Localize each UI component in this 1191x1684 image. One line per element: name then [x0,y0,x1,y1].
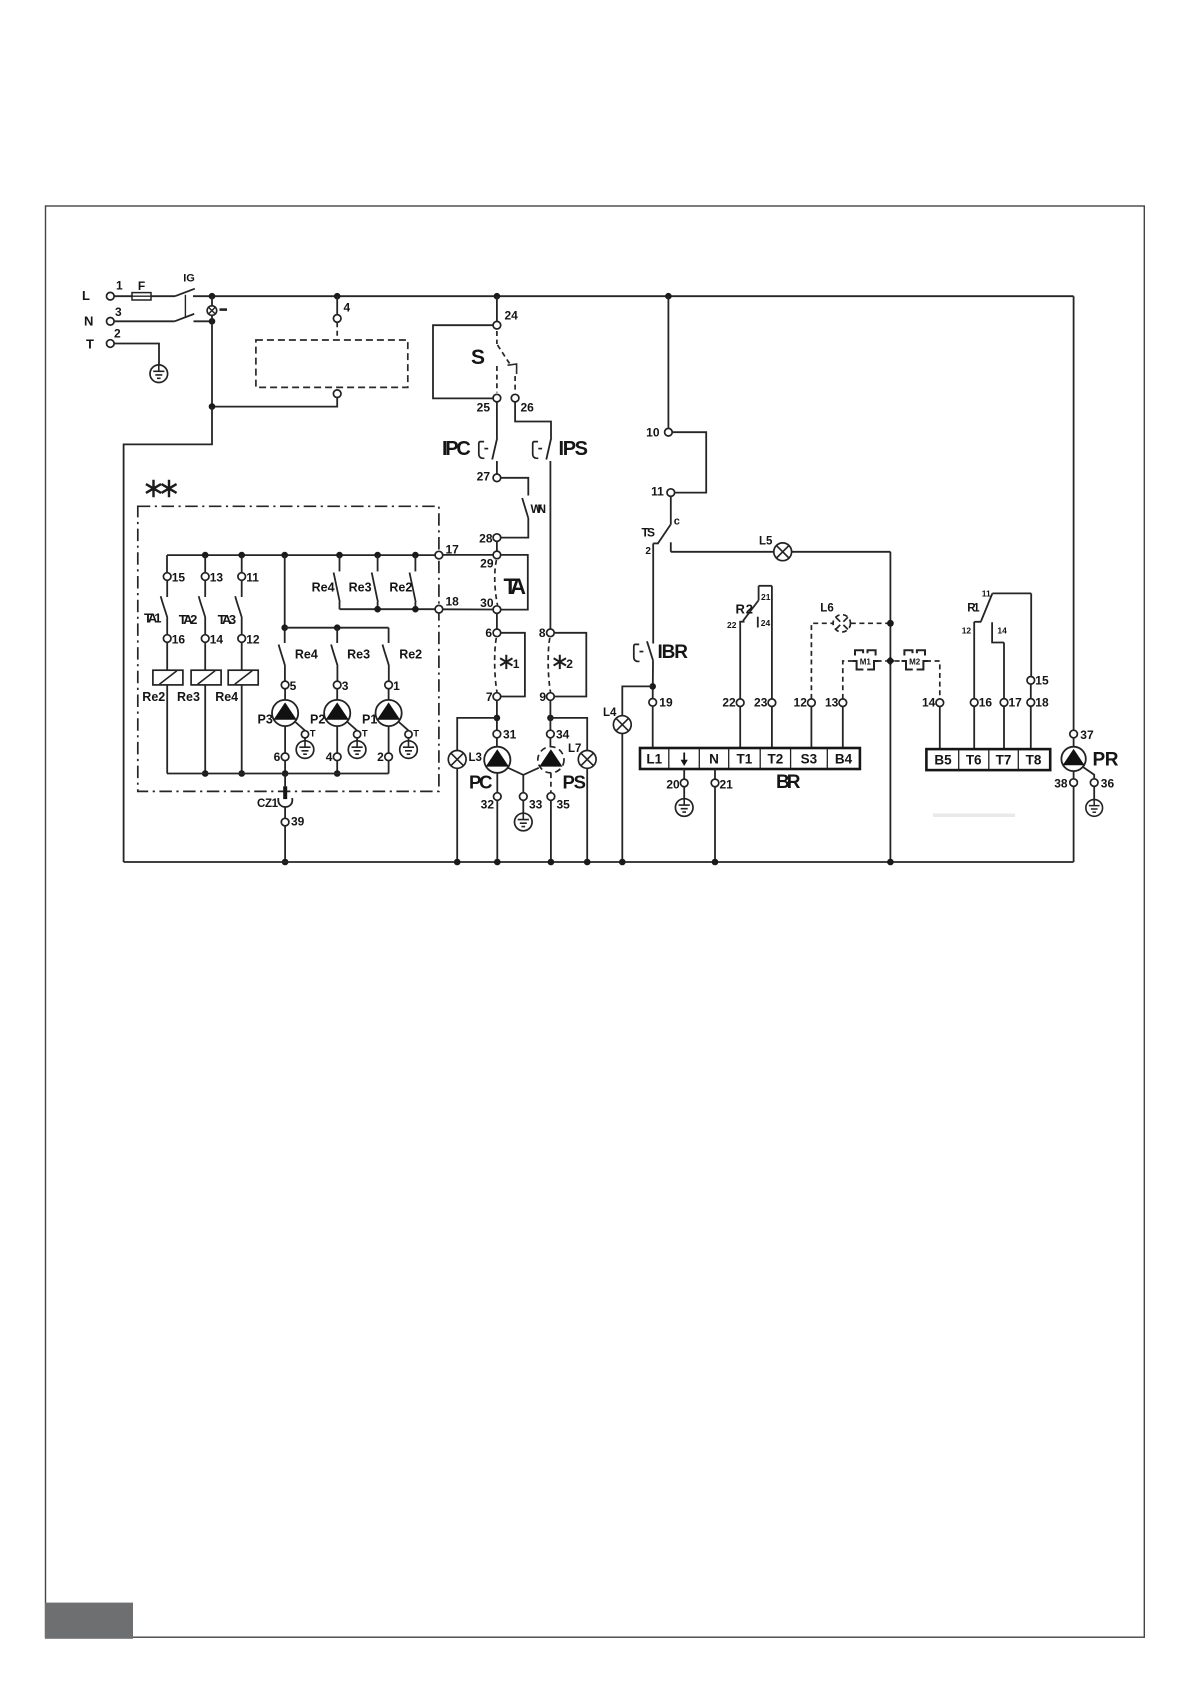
wire pumps header [285,627,389,629]
junction main left drop [209,403,216,410]
svg-text:Re4: Re4 [312,581,335,595]
svg-text:4: 4 [326,750,333,764]
switch TA1 [161,580,168,634]
svg-text:Re4: Re4 [295,648,318,662]
dashed option box [256,340,408,387]
svg-text:P3: P3 [258,712,273,726]
svg-text:14: 14 [922,696,936,710]
relay contact R2 [739,586,772,628]
svg-text:6: 6 [274,750,281,764]
wire 13 to B4 [842,707,844,749]
svg-text:2: 2 [645,546,651,557]
svg-text:L4: L4 [603,707,617,719]
terminal L [107,292,115,300]
junction pumps header left [281,624,288,631]
terminal 13 [201,573,209,581]
wire 16 to coil Re2 [166,642,168,670]
wire WN to 28 [501,518,528,538]
upper contact Re3 [372,555,378,609]
svg-text:TA3: TA3 [218,612,237,627]
wire 18 to T8 [1030,706,1032,749]
terminal 3 [333,681,341,689]
wire CZ1 to 39 [284,807,286,818]
svg-text:38: 38 [1054,776,1068,790]
terminal 16 [163,635,171,643]
terminal 16 right [970,699,978,707]
junction PS top [547,715,554,722]
dashed wire M2 to 14 [926,661,940,699]
svg-text:1: 1 [393,679,400,693]
svg-text:WN: WN [531,502,547,516]
wire 32 to bus [496,800,498,862]
svg-text:3: 3 [342,679,349,693]
thermostat TA box [501,555,528,610]
contact Re4 of P3 [279,645,286,667]
terminal 15 right [1027,677,1035,685]
wire IBR to 19 [652,660,654,698]
svg-text:9: 9 [539,690,546,704]
terminal 31 [493,730,501,738]
wire 6 to inner bus [284,761,286,774]
terminal 10 [665,428,673,436]
junction L6 drop [887,620,894,627]
wire bus to 10 [667,296,669,428]
relay coil M2 [902,650,928,669]
wire PC PS to 33 [508,768,539,793]
svg-text:TA: TA [504,574,527,599]
wire L3 to bus [456,769,458,863]
wire R2 to 23 [771,586,773,699]
terminal T of P2 [354,731,361,738]
junction inner bus Re3 [202,770,209,777]
pump PS dashed [538,747,564,773]
svg-text:12: 12 [794,696,808,710]
svg-text:1: 1 [513,657,520,671]
heater 1 dashed blade [495,638,497,692]
wire 4 to inner bus [336,761,338,774]
junction bus TA3 [238,552,245,559]
heater 1 star symbol [500,655,512,669]
wire P1 to T terminal [398,722,408,731]
junction bus at TS branch [665,293,672,300]
svg-text:Re3: Re3 [349,581,372,595]
lamp L6 dashed [833,615,850,632]
wire 30 to 6 [496,613,498,629]
svg-text:L6: L6 [820,603,833,615]
wire bus 17 to 29 [443,554,493,556]
junction N corner [209,318,216,325]
svg-text:F: F [138,279,145,293]
svg-text:24: 24 [505,309,519,323]
svg-text:14: 14 [210,633,224,647]
connector CZ1 [278,786,292,807]
wire P2 feeder [336,628,338,643]
dashed wire 13 to M1 [843,661,852,699]
relay contact R1 [974,593,1031,642]
terminal 11 right [667,489,675,497]
svg-text:15: 15 [1035,673,1049,687]
wire R1 14 to 17 [1003,643,1005,699]
terminal 26 [511,394,519,402]
wire P3 to T terminal [295,722,305,731]
junction bus L7 [584,859,591,866]
wire branch TA1 upper [166,555,168,573]
svg-text:T2: T2 [768,752,784,767]
junction bus CZ1 [282,859,289,866]
terminal 34 [547,730,555,738]
wire branch TA3 upper [241,555,243,573]
heater 2 dashed blade [548,638,550,692]
svg-text:P2: P2 [310,712,325,726]
terminal 27 [493,474,501,482]
gray footer block [45,1603,133,1639]
svg-text:TA1: TA1 [144,611,162,626]
wire T to earth [114,344,159,366]
svg-text:2: 2 [566,657,573,671]
junction PC top [494,715,501,722]
wire 9 to 34 [549,700,551,730]
svg-text:Re2: Re2 [389,581,412,595]
terminal 2 lower [385,753,393,761]
wire contact to 3 [336,666,338,681]
terminal 11 [238,573,246,581]
BR cell earth arrow [681,753,688,767]
wire T to earth P2 [356,738,358,741]
svg-text:13: 13 [825,696,839,710]
wire 27 to WN [501,478,529,496]
svg-text:16: 16 [979,696,993,710]
terminal T [107,340,115,348]
svg-text:IPC: IPC [442,438,471,460]
terminal 4 [333,315,341,323]
svg-text:TS: TS [642,526,656,540]
svg-text:17: 17 [446,543,460,557]
wire coil Re3 to inner bus [204,685,206,774]
svg-text:25: 25 [477,401,491,415]
wire PC to 32 [496,773,498,793]
terminal 24 [493,321,501,329]
svg-text:R1: R1 [967,603,980,615]
wire P1 to 2 [388,726,390,753]
switch IPS blade [546,438,551,460]
wire L5 return drop [889,552,891,862]
terminal 33 [520,793,528,801]
terminal 17 right [1000,699,1008,707]
upper contact Re4 [334,555,340,609]
dashed wire PS to 35 [550,773,552,793]
wire bus 18 to 30 [443,608,493,610]
wire 38 to bus [1073,786,1075,862]
junction bus at 4 branch [334,293,341,300]
junction rail Re2 [412,606,419,613]
svg-text:T7: T7 [996,753,1012,768]
svg-text:S: S [471,346,485,369]
wire 35 to bus [550,800,552,862]
wire bus to terminal 4 [336,296,338,314]
svg-text:Re4: Re4 [215,690,238,704]
wire 22 to T1 [739,707,741,749]
wire P3 to 6 [284,726,286,753]
svg-text:N: N [709,752,719,767]
junction bus L3 [454,859,461,866]
wire 21 to bus [714,787,716,862]
svg-text:37: 37 [1080,728,1094,742]
wire 17 to T7 [1003,706,1005,749]
dashed wire 12 to L6 [811,623,832,699]
wire 28 to 29 [496,541,498,551]
svg-text:23: 23 [754,696,768,710]
wire 14 to B5 [939,707,941,750]
pump PR [1061,747,1085,771]
svg-text:7: 7 [486,690,493,704]
svg-text:20: 20 [666,778,680,792]
junction bus at lamp branch [209,293,216,300]
junction bus L4 [619,859,626,866]
svg-text:34: 34 [556,728,570,742]
svg-text:PR: PR [1093,750,1119,771]
IBR actuator symbol [634,644,644,661]
wire P1 feeder [388,628,390,643]
svg-text:PS: PS [563,772,587,793]
svg-text:B4: B4 [835,752,853,767]
svg-text:CZ1: CZ1 [257,798,279,810]
wire 39 to bus [284,826,286,862]
svg-text:T: T [86,337,94,352]
wire 2 to inner bus [388,761,390,774]
svg-text:IG: IG [183,273,195,285]
wire contact to 5 [284,666,286,681]
svg-text:5: 5 [290,679,297,693]
svg-text:12: 12 [246,633,260,647]
IPS actuator symbol [533,442,542,459]
wire contacts lower rail [340,608,436,610]
svg-text:N: N [84,314,93,329]
earth of P1 [400,741,418,759]
TA dashed blade [495,560,498,605]
relay coil Re2 [153,670,183,685]
svg-text:T: T [310,729,316,740]
faint scan mark [933,814,1015,818]
svg-text:12: 12 [962,626,972,636]
wire BR earth cell to 20 [683,769,685,779]
terminal strip BR [640,748,860,769]
svg-text:30: 30 [480,596,494,610]
wire 15 to 18 [1030,684,1032,699]
terminal 12 right [808,699,816,707]
wire 31 to PC [496,738,498,747]
terminal 14 right [936,699,944,707]
svg-text:22: 22 [727,620,737,630]
svg-text:8: 8 [539,626,546,640]
svg-text:Re3: Re3 [177,690,200,704]
wire 12 to S3 [810,707,812,749]
junction inner bus P2 [334,770,341,777]
wire 26 to IPS [515,402,551,438]
wire main bottom bus [124,861,1074,863]
svg-text:T1: T1 [737,752,753,767]
svg-text:28: 28 [479,532,493,546]
terminal T of P3 [301,731,308,738]
thermostat TS changeover [653,496,671,551]
contact Re3 of P2 [331,645,338,667]
earth of PR [1086,800,1103,817]
wire coil Re2 to inner bus [166,685,168,774]
switch TA2 [199,580,206,634]
earth of pumps PC PS [515,813,533,831]
terminal 23 [768,699,776,707]
wire junction to L3 [457,718,497,750]
wire L7 to bus [586,769,588,863]
svg-text:39: 39 [291,815,305,829]
wire contact to 1 [388,666,390,681]
lamp L3 [448,751,466,769]
terminal strip right [926,749,1050,770]
terminal T of P1 [405,731,412,738]
relay coil M1 [852,650,878,669]
svg-text:24: 24 [761,618,771,628]
junction rail Re3 [374,606,381,613]
switch TA3 [235,580,242,634]
svg-text:Re2: Re2 [142,690,165,704]
svg-text:B5: B5 [934,753,952,768]
dashed lead 4 to option box [336,322,338,339]
wire R2 to 22 [739,622,741,699]
svg-text:Re3: Re3 [347,648,370,662]
wire P2 to T terminal [347,722,357,731]
junction L4 tap [649,683,656,690]
wire N contact to corner [194,320,213,322]
wire to lamp L4 [622,686,652,715]
terminal 14 [201,635,209,643]
svg-text:6: 6 [485,626,492,640]
wire 23 to T2 [771,707,773,749]
wire T to earth P1 [408,738,410,741]
lamp L5 [774,543,792,561]
terminal 19 [649,699,657,707]
svg-text:36: 36 [1101,776,1115,790]
switch IG [175,273,195,322]
wire left drop to bottom bus [124,407,212,862]
wire 7 to PC junction [496,700,498,730]
wire R1 11 to 15 [1030,593,1032,676]
junction bus 35 [548,859,555,866]
switch WN blade [522,498,528,518]
svg-text:BR: BR [776,772,801,793]
terminal 35 [547,793,555,801]
terminal below option box [333,390,341,398]
relay coil Re4 [228,670,258,685]
svg-text:32: 32 [481,798,495,812]
contact Re2 of P1 [383,645,390,667]
wire 10 to 11 [672,432,706,492]
svg-text:18: 18 [446,595,460,609]
svg-text:L5: L5 [759,536,773,548]
svg-text:14: 14 [997,626,1007,636]
heater 2 box [554,633,586,697]
dashed wire L6 to drop [851,622,891,624]
terminal 15 [163,573,171,581]
wire TS to IBR [652,543,654,643]
wire N down to junction [211,321,213,406]
earth of BR [675,799,693,817]
terminal 21 [711,779,719,787]
wire N from terminal to switch [114,320,175,322]
svg-text:13: 13 [210,571,224,585]
svg-text:33: 33 [529,798,543,812]
wire pumps feeder [284,555,286,643]
terminal 17 [435,551,443,559]
wire 16 to T6 [973,706,975,749]
svg-text:21: 21 [720,778,734,792]
svg-text:26: 26 [521,401,535,415]
terminal 13 right [839,699,847,707]
terminal 39 [281,818,289,826]
lamp L4 [613,716,631,734]
terminal 36 [1090,779,1098,787]
svg-text:M2: M2 [909,658,921,667]
junction bus pumps branch [281,552,288,559]
junction bus at S branch [494,293,501,300]
wire fuse to IG [151,295,175,297]
svg-text:T6: T6 [966,753,982,768]
svg-text:L7: L7 [568,743,581,755]
selector S dashed blades [497,331,517,393]
svg-text:PC: PC [469,772,493,793]
wire inner top bus [167,554,435,556]
svg-text:2: 2 [377,750,384,764]
terminal 8 [547,629,555,637]
terminal 4 lower [333,753,341,761]
svg-text:IBR: IBR [658,642,689,663]
svg-text:P1: P1 [362,712,377,726]
IPC actuator symbol [479,442,488,459]
wire bus to 37 [1073,296,1075,730]
terminal 37 [1070,730,1078,738]
svg-text:16: 16 [172,633,186,647]
svg-text:3: 3 [115,305,122,319]
terminal 29 [493,551,501,559]
svg-text:1: 1 [116,279,123,293]
terminal 6 [493,629,501,637]
junction bus L5 return [887,859,894,866]
svg-text:T: T [413,729,419,740]
wire L5 feed [671,551,891,553]
wire 34 to PS [549,738,551,747]
wire 1 to P1 [388,689,390,700]
wire junction to L7 [550,718,587,750]
note asterisks ** [146,480,177,498]
wire option box return [212,398,337,407]
relay coil Re3 [191,670,221,685]
pump P1 [376,700,402,726]
junction bus Re2 contact upper [412,552,419,559]
terminal 6 lower [281,753,289,761]
terminal 7 [493,693,501,701]
heater 1 box [501,633,525,697]
terminal 18 right [1027,699,1035,707]
svg-text:L3: L3 [469,752,482,764]
wire branch TA2 upper [204,555,206,573]
svg-text:Re2: Re2 [399,648,422,662]
earth of T input [150,365,168,383]
junction bus TA2 [202,552,209,559]
wire 19 to BR L1 [652,706,654,748]
junction inner bus P3 [282,770,289,777]
svg-text:L1: L1 [646,752,662,767]
wire BR N cell to 21 [714,769,716,779]
heater 2 star symbol [554,655,566,669]
terminal 32 [494,793,502,801]
